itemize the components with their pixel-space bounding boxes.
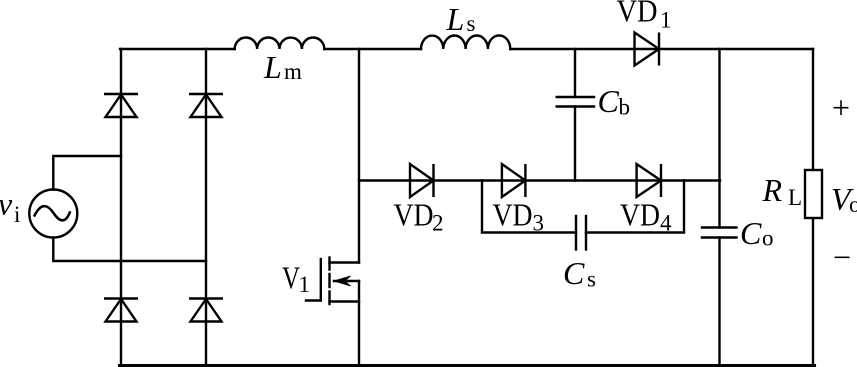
svg-text:VD: VD (493, 197, 533, 233)
svg-text:VD: VD (620, 197, 660, 233)
svg-text:C: C (563, 255, 585, 291)
svg-text:VD: VD (617, 0, 658, 29)
svg-text:L: L (263, 49, 282, 85)
svg-text:3: 3 (533, 211, 545, 236)
svg-text:4: 4 (660, 211, 672, 236)
svg-text:m: m (284, 59, 302, 84)
svg-text:R: R (762, 172, 783, 208)
svg-text:b: b (619, 95, 631, 120)
svg-text:2: 2 (432, 211, 444, 236)
svg-text:1: 1 (660, 8, 672, 33)
svg-text:o: o (849, 192, 857, 217)
svg-text:s: s (467, 11, 476, 36)
svg-text:s: s (587, 267, 596, 292)
svg-text:V: V (282, 260, 300, 296)
svg-text:o: o (762, 226, 774, 251)
svg-text:1: 1 (299, 272, 311, 297)
svg-text:C: C (598, 83, 620, 119)
svg-text:−: − (833, 239, 851, 275)
svg-text:L: L (446, 1, 465, 37)
svg-text:v: v (0, 186, 13, 222)
svg-text:C: C (740, 215, 762, 251)
svg-text:i: i (14, 202, 20, 227)
svg-text:VD: VD (394, 197, 434, 233)
svg-text:+: + (832, 90, 850, 126)
svg-text:L: L (788, 185, 802, 210)
